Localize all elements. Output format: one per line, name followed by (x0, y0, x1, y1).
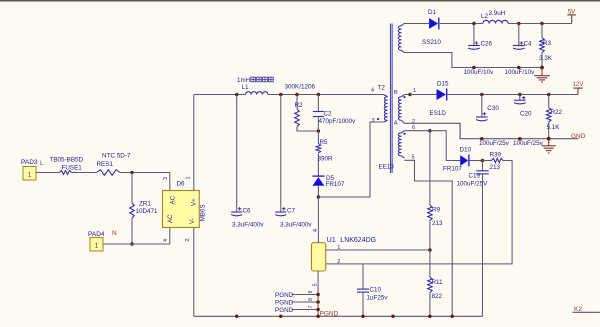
junction (130, 242, 134, 246)
resistor R2 (285, 84, 319, 132)
transformer T2 primary (371, 85, 388, 124)
svg-text:C30: C30 (487, 105, 499, 112)
junction (547, 93, 551, 97)
junction (518, 137, 522, 141)
ground (534, 68, 550, 83)
pin 4 of U1 (313, 197, 319, 243)
svg-text:FR107: FR107 (443, 166, 462, 173)
junction (518, 93, 522, 97)
resistor R11 (428, 250, 443, 316)
svg-text:U1: U1 (327, 237, 336, 244)
svg-text:3.3uF/400v: 3.3uF/400v (232, 222, 264, 229)
svg-text:213: 213 (490, 164, 501, 171)
net label N (112, 230, 117, 237)
svg-text:RES1: RES1 (97, 161, 114, 168)
net label PGND (320, 310, 339, 317)
junction (361, 315, 365, 319)
svg-text:3.3K: 3.3K (539, 55, 553, 62)
junction (317, 93, 321, 97)
junction (391, 315, 395, 319)
svg-text:4: 4 (163, 239, 169, 242)
svg-text:L2: L2 (481, 13, 489, 20)
pin 2 of D6 (185, 238, 191, 241)
svg-text:PGND: PGND (275, 299, 294, 306)
svg-text:ES1D: ES1D (430, 110, 447, 117)
svg-text:LNK624DG: LNK624DG (340, 237, 376, 244)
svg-text:GND: GND (571, 133, 586, 140)
junction (481, 159, 485, 163)
svg-text:C20: C20 (520, 111, 532, 118)
diode D10 (443, 147, 472, 173)
svg-text:R22: R22 (551, 109, 563, 116)
wire (404, 160, 452, 316)
wire (404, 53, 542, 68)
junction (316, 315, 320, 319)
wire (573, 311, 600, 313)
svg-text:2: 2 (185, 238, 191, 241)
capacitor C7 (275, 95, 312, 229)
svg-text:PGND: PGND (275, 307, 294, 314)
diode D5 (312, 175, 344, 197)
pin 8 of U1 (292, 298, 319, 302)
wire (430, 131, 460, 161)
svg-text:R2: R2 (295, 102, 304, 109)
svg-text:ZR1: ZR1 (139, 201, 151, 208)
label 1mH toroid inductor (237, 77, 273, 84)
wire (469, 160, 483, 162)
svg-text:1mH: 1mH (237, 77, 250, 84)
svg-text:V+: V+ (191, 198, 198, 206)
port PAD4 (88, 231, 105, 251)
svg-text:6: 6 (412, 125, 415, 131)
svg-text:R11: R11 (432, 279, 444, 286)
capacitor C10 (357, 264, 388, 316)
svg-text:NTC 5D-7: NTC 5D-7 (102, 153, 131, 160)
svg-text:3: 3 (163, 177, 169, 180)
svg-text:C19: C19 (469, 173, 481, 180)
capacitor C26 (464, 24, 495, 77)
wire (440, 23, 483, 25)
junction (472, 66, 476, 70)
wire (318, 122, 383, 197)
junction (279, 93, 283, 97)
inductor L2 (481, 10, 508, 24)
net label L (40, 160, 44, 167)
junction (295, 93, 299, 97)
pin 7 of U1 (292, 305, 319, 309)
capacitor C19 (457, 161, 489, 188)
svg-text:300K/1206: 300K/1206 (285, 84, 316, 91)
junction (317, 129, 321, 133)
junction (517, 66, 521, 70)
wire (326, 161, 512, 264)
transformer T2 bottom secondary (398, 125, 415, 161)
port PAD3 (21, 159, 38, 180)
svg-text:C10: C10 (370, 287, 382, 294)
bridge rectifier D6 (163, 181, 207, 228)
junction (428, 248, 432, 252)
svg-text:3: 3 (372, 118, 375, 124)
svg-text:PAD4: PAD4 (88, 231, 105, 238)
svg-text:100uF/10v: 100uF/10v (464, 69, 495, 76)
transformer T2 middle secondary (398, 88, 416, 125)
wire (194, 315, 483, 317)
pin 1 of U1 (326, 245, 430, 251)
svg-text:5V: 5V (568, 9, 576, 16)
svg-text:C26: C26 (481, 41, 493, 48)
svg-text:N: N (112, 230, 117, 237)
transformer T2 top secondary (398, 24, 404, 53)
svg-text:A: A (394, 120, 398, 126)
junction (480, 93, 484, 97)
capacitor C4 (505, 24, 536, 77)
svg-text:D15: D15 (437, 81, 449, 88)
wire (268, 94, 384, 96)
junction (235, 315, 239, 319)
diode D1 (422, 9, 441, 46)
svg-text:5: 5 (312, 283, 318, 286)
pin 4 of D6 (163, 228, 170, 245)
capacitor C2 (313, 95, 356, 132)
svg-text:100uF/25v: 100uF/25v (513, 140, 544, 147)
svg-text:1: 1 (413, 88, 416, 94)
wire (404, 23, 429, 25)
svg-text:100uF/25v: 100uF/25v (479, 140, 510, 147)
svg-text:8: 8 (308, 298, 314, 301)
window top edge (0, 0, 600, 2)
svg-text:FUSE1: FUSE1 (62, 165, 83, 172)
svg-text:1: 1 (186, 176, 192, 179)
svg-text:822: 822 (432, 293, 443, 300)
svg-text:FR107: FR107 (326, 181, 345, 188)
svg-text:10D471: 10D471 (136, 208, 159, 215)
svg-text:L: L (40, 160, 44, 167)
svg-text:5: 5 (412, 154, 415, 160)
svg-text:100uF/25V: 100uF/25V (457, 180, 489, 187)
diode D15 (430, 81, 450, 118)
wire (104, 243, 133, 245)
resistor R3 (539, 24, 553, 68)
net label K2 (574, 306, 582, 313)
wire (194, 94, 246, 96)
svg-text:7: 7 (308, 305, 314, 308)
svg-text:D10: D10 (460, 147, 472, 154)
wire (193, 95, 195, 191)
svg-text:T2: T2 (378, 85, 386, 92)
svg-text:213: 213 (432, 220, 443, 227)
svg-text:890R: 890R (318, 156, 334, 163)
svg-text:5.1K: 5.1K (547, 124, 561, 131)
junction (130, 171, 134, 175)
svg-text:C6: C6 (243, 208, 252, 215)
wire (404, 94, 410, 96)
resistor R9 (428, 131, 443, 250)
svg-text:3.9uH: 3.9uH (489, 10, 506, 17)
svg-text:100uF/10v: 100uF/10v (505, 69, 536, 76)
junction (540, 66, 544, 70)
op-amp U1 (312, 237, 377, 271)
svg-text:1: 1 (337, 245, 340, 251)
pin 1 of D6 (186, 176, 192, 179)
ground (542, 139, 556, 153)
svg-text:C7: C7 (287, 208, 296, 215)
resistor R5 (316, 131, 333, 176)
wire (36, 172, 60, 174)
svg-text:AC: AC (170, 195, 177, 204)
thermistor RES1 (97, 153, 131, 176)
wire (482, 174, 484, 316)
transformer T2 core (379, 24, 399, 174)
junction (317, 195, 321, 199)
junction (547, 137, 551, 141)
svg-text:SS210: SS210 (422, 39, 441, 46)
svg-text:K2: K2 (574, 306, 582, 313)
power port 12V (572, 81, 584, 95)
capacitor C6 (231, 95, 264, 229)
svg-text:1uF25v: 1uF25v (367, 295, 389, 302)
resistor R22 (546, 95, 562, 139)
junction (472, 22, 476, 26)
svg-text:3.3uF/400v: 3.3uF/400v (280, 222, 312, 229)
svg-text:C2: C2 (324, 111, 333, 118)
label PGND (275, 292, 294, 314)
svg-text:R3: R3 (543, 40, 552, 47)
junction (480, 137, 484, 141)
wire (447, 94, 578, 96)
pin 6 of U1 (292, 290, 319, 294)
svg-text:2: 2 (337, 259, 340, 265)
junction (408, 93, 412, 97)
svg-text:4: 4 (371, 88, 374, 94)
inductor L1 (242, 84, 269, 95)
wire (404, 123, 578, 138)
pin 5 of U1 (312, 271, 318, 316)
wire (410, 94, 437, 96)
svg-text:D1: D1 (428, 9, 437, 16)
svg-text:12V: 12V (572, 81, 584, 88)
pin 2 of U1 (337, 259, 340, 265)
resistor R39 (483, 152, 504, 171)
capacitor C30 (476, 95, 510, 148)
power port 5V (567, 9, 576, 24)
net label GND (571, 133, 586, 140)
svg-text:R5: R5 (320, 139, 329, 146)
svg-text:D6: D6 (177, 181, 186, 188)
svg-text:V-: V- (189, 218, 196, 224)
junction (316, 308, 320, 312)
junction (517, 22, 521, 26)
svg-text:MB6S: MB6S (199, 204, 206, 221)
svg-text:AC: AC (167, 214, 174, 223)
junction (450, 315, 454, 319)
junction (540, 22, 544, 26)
wire (132, 243, 170, 245)
svg-text:C4: C4 (524, 41, 533, 48)
svg-text:4: 4 (313, 229, 319, 232)
wire (404, 130, 430, 132)
svg-text:PAD3: PAD3 (21, 159, 38, 166)
wire (193, 228, 195, 317)
varistor ZR1 (130, 173, 158, 245)
svg-text:470pF/1000v: 470pF/1000v (319, 118, 357, 125)
svg-text:6: 6 (308, 290, 314, 293)
fuse FUSE1 (50, 157, 84, 175)
svg-text:R39: R39 (490, 152, 502, 159)
junction (428, 315, 432, 319)
wire (120, 172, 170, 174)
wire (508, 23, 572, 25)
svg-text:PGND: PGND (275, 292, 294, 299)
junction (316, 300, 320, 304)
svg-text:B: B (394, 90, 398, 96)
svg-text:R9: R9 (432, 207, 441, 214)
pin 3 of D6 (163, 173, 170, 191)
wire (72, 172, 97, 174)
svg-text:EE13: EE13 (379, 164, 395, 171)
junction (428, 129, 432, 133)
svg-text:TB05-BB5D: TB05-BB5D (50, 157, 84, 164)
junction (316, 293, 320, 297)
junction (235, 93, 239, 97)
junction (279, 315, 283, 319)
svg-text:L1: L1 (242, 84, 250, 91)
capacitor C20 (513, 95, 544, 148)
